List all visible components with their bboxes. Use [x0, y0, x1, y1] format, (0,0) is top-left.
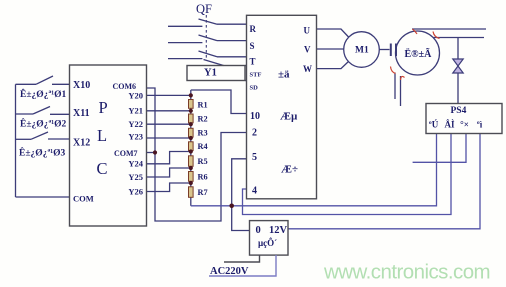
svg-text:R2: R2: [198, 115, 208, 124]
svg-text:R4: R4: [198, 142, 208, 151]
svg-text:ºÚ: ºÚ: [429, 120, 439, 130]
svg-text:Y25: Y25: [128, 172, 143, 182]
svg-text:Ê±¿Ø¿ª¹Ø2: Ê±¿Ø¿ª¹Ø2: [20, 118, 67, 130]
svg-text:Æµ: Æµ: [280, 111, 298, 123]
svg-text:±ä: ±ä: [278, 69, 290, 81]
svg-text:Æ÷: Æ÷: [281, 164, 298, 176]
svg-text:STF: STF: [250, 72, 262, 79]
svg-text:ºì: ºì: [477, 120, 483, 130]
svg-text:Y20: Y20: [128, 91, 143, 101]
svg-text:COM7: COM7: [114, 149, 138, 158]
svg-text:Ê±¿Ø¿ª¹Ø3: Ê±¿Ø¿ª¹Ø3: [19, 147, 66, 159]
svg-text:12V: 12V: [269, 225, 288, 236]
svg-text:X10: X10: [73, 80, 90, 91]
svg-text:U: U: [304, 26, 311, 36]
svg-text:Y1: Y1: [204, 68, 217, 79]
svg-text:Ê±¿Ø¿ª¹Ø1: Ê±¿Ø¿ª¹Ø1: [20, 88, 67, 100]
svg-text:Y26: Y26: [128, 187, 143, 197]
svg-text:R7: R7: [198, 188, 208, 197]
svg-text:5: 5: [252, 152, 257, 163]
svg-text:PS4: PS4: [451, 106, 467, 116]
svg-text:4: 4: [252, 186, 257, 197]
svg-text:V: V: [304, 45, 311, 55]
svg-text:R1: R1: [198, 101, 208, 110]
svg-text:X11: X11: [73, 108, 90, 119]
svg-text:Ë®±Ã: Ë®±Ã: [405, 47, 433, 60]
svg-text:M1: M1: [355, 46, 369, 56]
svg-text:C: C: [97, 159, 108, 178]
svg-text:AC220V: AC220V: [210, 266, 249, 277]
svg-text:Y22: Y22: [128, 119, 143, 129]
svg-text:R5: R5: [198, 157, 208, 166]
svg-text:µçÔ´: µçÔ´: [258, 238, 277, 248]
svg-text:www.cntronics.com: www.cntronics.com: [323, 261, 490, 284]
svg-text:X12: X12: [73, 138, 90, 149]
svg-text:L: L: [97, 126, 107, 145]
svg-text:QF: QF: [196, 2, 212, 16]
svg-text:Y21: Y21: [128, 106, 143, 116]
svg-text:R3: R3: [198, 129, 208, 138]
svg-text:Y23: Y23: [128, 132, 143, 142]
svg-text:S: S: [250, 41, 255, 51]
svg-text:°×: °×: [460, 120, 469, 130]
svg-text:0: 0: [256, 225, 261, 236]
svg-text:Y24: Y24: [128, 159, 143, 169]
svg-text:SD: SD: [250, 85, 259, 92]
svg-text:P: P: [99, 98, 108, 117]
svg-text:10: 10: [250, 111, 260, 122]
svg-text:T: T: [250, 57, 256, 67]
svg-text:R6: R6: [198, 173, 208, 182]
svg-text:2: 2: [252, 128, 257, 139]
svg-text:COM: COM: [73, 194, 94, 204]
svg-text:R: R: [250, 24, 257, 34]
svg-text:ÂÌ: ÂÌ: [444, 120, 454, 130]
svg-text:W: W: [303, 64, 312, 74]
